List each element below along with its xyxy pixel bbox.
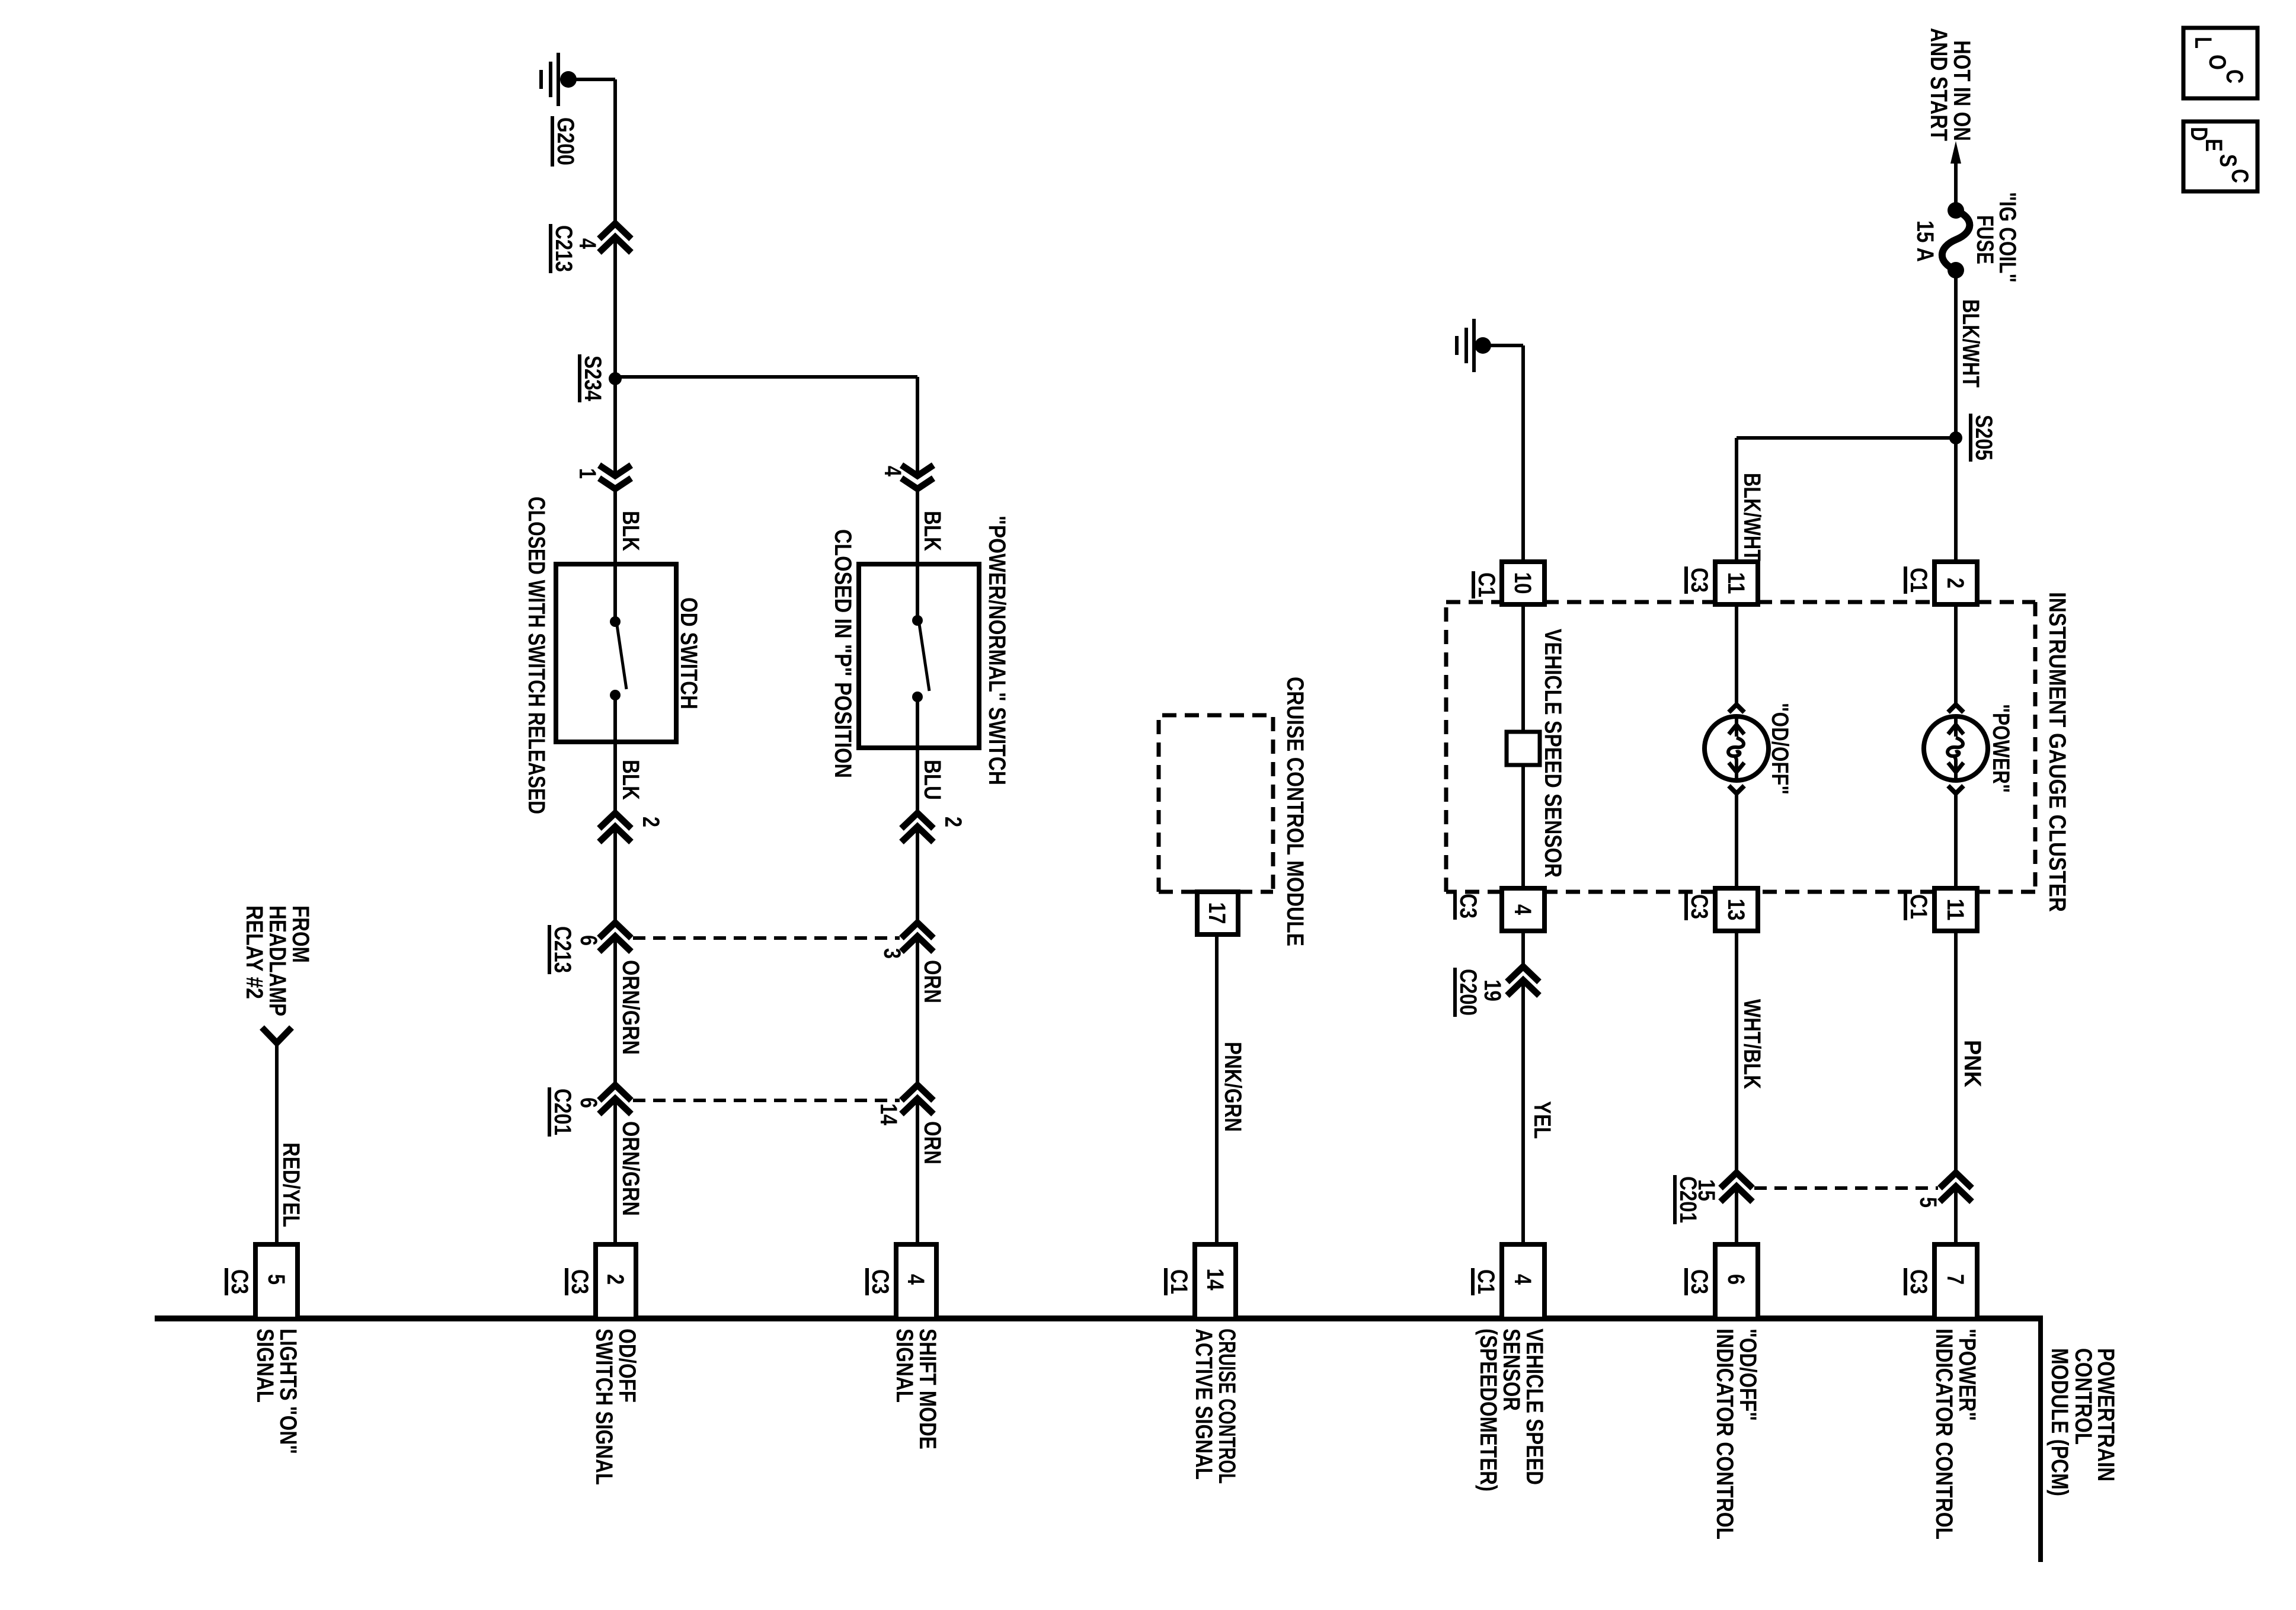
wire cluster pin2 to POWER lamp bbox=[1954, 604, 1958, 705]
wire BLU below POWER/NORMAL switch bbox=[916, 748, 919, 813]
svg-text:CONTROL: CONTROL bbox=[2070, 1348, 2096, 1445]
svg-text:C1: C1 bbox=[1473, 572, 1499, 597]
inline connector pin 1 (OD switch) bbox=[599, 465, 631, 476]
wire to PCM pin 6 bbox=[1735, 1186, 1738, 1242]
wire RED/YEL to PCM pin 5 bbox=[275, 1042, 279, 1242]
svg-text:PNK: PNK bbox=[1959, 1040, 1985, 1087]
inline connector C213 pin 4 bbox=[599, 223, 631, 239]
arrow to power feed bbox=[1950, 141, 1961, 164]
wire PNK to pin 5 bbox=[1954, 931, 1958, 1173]
connector box pin 14 C1 (PCM) bbox=[1195, 1244, 1236, 1319]
inline connector C201 pin 15 bbox=[1721, 1173, 1753, 1188]
svg-text:INDICATOR CONTROL: INDICATOR CONTROL bbox=[1931, 1329, 1957, 1539]
svg-text:CRUISE CONTROL MODULE: CRUISE CONTROL MODULE bbox=[1282, 677, 1308, 946]
svg-text:6: 6 bbox=[575, 935, 602, 946]
inline connector pin 2 (POWER/NORMAL switch) bbox=[901, 813, 933, 828]
POWER/NORMAL switch contacts and blade bbox=[912, 615, 923, 626]
connector box pin 11 C3 (cluster) bbox=[1715, 562, 1758, 604]
svg-text:LIGHTS "ON": LIGHTS "ON" bbox=[275, 1329, 301, 1454]
svg-text:BLK: BLK bbox=[618, 760, 644, 800]
svg-text:OD SWITCH: OD SWITCH bbox=[676, 597, 702, 709]
inline connector C213 pin 6 bbox=[599, 923, 631, 938]
svg-text:11: 11 bbox=[1723, 572, 1749, 594]
svg-text:BLK: BLK bbox=[618, 511, 644, 551]
indicator lamp POWER bbox=[1948, 705, 1964, 712]
svg-text:SWITCH SIGNAL: SWITCH SIGNAL bbox=[591, 1329, 617, 1485]
svg-text:11: 11 bbox=[1942, 899, 1968, 921]
svg-text:6: 6 bbox=[575, 1097, 602, 1108]
svg-text:C1: C1 bbox=[1166, 1269, 1192, 1294]
splice S205 bbox=[1949, 431, 1962, 444]
svg-text:"POWER": "POWER" bbox=[1988, 704, 2014, 793]
indicator lamp OD/OFF bbox=[1729, 705, 1744, 712]
svg-text:S234: S234 bbox=[580, 356, 606, 402]
svg-text:RED/YEL: RED/YEL bbox=[278, 1142, 304, 1227]
svg-text:C3: C3 bbox=[1686, 568, 1712, 593]
legend box DESC bbox=[2183, 121, 2257, 191]
wire to C200 bbox=[1521, 931, 1525, 966]
svg-text:YEL: YEL bbox=[1529, 1101, 1555, 1139]
svg-text:4: 4 bbox=[1510, 1274, 1536, 1285]
wire sensor to cluster pin 4 bbox=[1521, 765, 1525, 888]
svg-text:C3: C3 bbox=[567, 1269, 593, 1294]
INSTRUMENT GAUGE CLUSTER dashed box bbox=[1446, 602, 2035, 892]
svg-text:C213: C213 bbox=[551, 225, 577, 272]
svg-text:RELAY #2: RELAY #2 bbox=[241, 905, 267, 999]
svg-text:INDICATOR CONTROL: INDICATOR CONTROL bbox=[1712, 1329, 1738, 1539]
svg-text:BLK: BLK bbox=[919, 511, 945, 551]
svg-text:10: 10 bbox=[1510, 572, 1536, 594]
connector box pin 7 C3 (PCM) bbox=[1934, 1244, 1977, 1319]
svg-text:CLOSED WITH SWITCH RELEASED: CLOSED WITH SWITCH RELEASED bbox=[523, 497, 549, 814]
wire ORN to pin 3 bbox=[916, 827, 919, 923]
svg-text:ACTIVE SIGNAL: ACTIVE SIGNAL bbox=[1191, 1329, 1217, 1480]
svg-text:"OD/OFF": "OD/OFF" bbox=[1767, 703, 1793, 795]
legend box LOC bbox=[2183, 28, 2257, 98]
wire ground to C213 bbox=[568, 78, 615, 81]
svg-text:6: 6 bbox=[1723, 1274, 1749, 1285]
wire PNK/GRN to PCM pin 14 bbox=[1215, 934, 1219, 1242]
wire POWER lamp to cluster pin 11 bbox=[1954, 793, 1958, 888]
wire to C213 pin 6 bbox=[613, 827, 617, 923]
wire PNK to PCM pin 7 bbox=[1954, 1186, 1958, 1242]
svg-text:4: 4 bbox=[574, 238, 600, 249]
svg-text:G200: G200 bbox=[552, 117, 578, 165]
svg-text:14: 14 bbox=[1202, 1269, 1228, 1291]
wire ORN/GRN to C201 bbox=[613, 936, 617, 1085]
svg-text:CRUISE CONTROL: CRUISE CONTROL bbox=[1214, 1329, 1240, 1484]
svg-text:C200: C200 bbox=[1455, 969, 1481, 1016]
svg-text:C: C bbox=[2227, 169, 2253, 183]
fuse IG COIL 15 A bbox=[1948, 202, 1964, 219]
svg-text:C1: C1 bbox=[1473, 1269, 1499, 1294]
svg-text:PNK/GRN: PNK/GRN bbox=[1220, 1042, 1246, 1132]
wire BLK/WHT fuse to cluster pin 2 bbox=[1954, 270, 1958, 562]
svg-text:C1: C1 bbox=[1905, 568, 1932, 593]
connector box pin 4 C1 (PCM) bbox=[1502, 1244, 1544, 1319]
connector box pin 2 C1 (cluster) bbox=[1934, 562, 1977, 604]
svg-text:19: 19 bbox=[1479, 980, 1505, 1001]
vehicle speed sensor element bbox=[1507, 732, 1540, 765]
wire BLK into POWER/NORMAL switch bbox=[916, 489, 919, 564]
svg-text:S: S bbox=[2215, 154, 2241, 167]
connector box pin 5 C3 (PCM) bbox=[255, 1244, 298, 1319]
inline connector pin 4 (POWER/NORMAL switch) bbox=[901, 465, 933, 476]
PCM right boundary line bbox=[2038, 1315, 2043, 1562]
svg-text:SHIFT MODE: SHIFT MODE bbox=[914, 1329, 941, 1449]
wire S234 branch to POWER/NORMAL switch bbox=[615, 375, 917, 379]
svg-text:2: 2 bbox=[940, 817, 966, 827]
inline connector pin 5 bbox=[1940, 1173, 1972, 1188]
svg-text:17: 17 bbox=[1204, 902, 1230, 924]
svg-text:C3: C3 bbox=[867, 1269, 893, 1294]
svg-text:C3: C3 bbox=[1686, 1269, 1712, 1294]
dashed link C213 pin6 to pin3 bbox=[633, 936, 900, 940]
svg-text:C201: C201 bbox=[549, 1089, 575, 1135]
svg-text:L: L bbox=[2190, 37, 2216, 49]
svg-text:2: 2 bbox=[602, 1274, 628, 1285]
svg-text:VEHICLE SPEED SENSOR: VEHICLE SPEED SENSOR bbox=[1540, 629, 1566, 878]
svg-text:C3: C3 bbox=[1686, 894, 1712, 919]
svg-text:5: 5 bbox=[1915, 1197, 1941, 1208]
svg-text:CLOSED IN "P" POSITION: CLOSED IN "P" POSITION bbox=[830, 529, 856, 778]
svg-text:BLU: BLU bbox=[919, 760, 945, 800]
svg-text:13: 13 bbox=[1723, 899, 1749, 921]
wire ORN to pin 14 bbox=[916, 936, 919, 1085]
connector box pin 6 C3 (PCM) bbox=[1715, 1244, 1758, 1319]
svg-text:"POWER": "POWER" bbox=[1954, 1329, 1980, 1421]
svg-text:7: 7 bbox=[1942, 1274, 1968, 1285]
wire S205 branch BLK/WHT bbox=[1737, 436, 1956, 440]
wire BLK from S234 to POWER/NORMAL switch bbox=[916, 377, 919, 476]
svg-text:4: 4 bbox=[880, 466, 906, 477]
svg-text:3: 3 bbox=[879, 948, 905, 959]
svg-text:C213: C213 bbox=[549, 926, 575, 973]
connector box pin 2 C3 (PCM) bbox=[596, 1244, 636, 1319]
connector box pin 13 C3 (cluster) bbox=[1715, 888, 1758, 931]
svg-text:5: 5 bbox=[263, 1274, 289, 1285]
inline connector pin 14 bbox=[901, 1085, 933, 1100]
svg-text:14: 14 bbox=[875, 1103, 901, 1126]
svg-text:1: 1 bbox=[574, 468, 600, 479]
svg-text:SIGNAL: SIGNAL bbox=[252, 1329, 278, 1403]
CRUISE CONTROL MODULE dashed box bbox=[1159, 715, 1273, 892]
OD SWITCH box bbox=[556, 564, 676, 742]
svg-text:C3: C3 bbox=[1905, 1269, 1932, 1294]
svg-text:AND START: AND START bbox=[1926, 28, 1952, 141]
svg-text:VEHICLE SPEED: VEHICLE SPEED bbox=[1521, 1329, 1547, 1485]
dashed link C201 pin15 to pin5 bbox=[1754, 1186, 1938, 1190]
svg-text:FROM: FROM bbox=[287, 905, 314, 963]
svg-text:ORN: ORN bbox=[919, 960, 945, 1003]
svg-text:C: C bbox=[2221, 69, 2247, 84]
svg-text:ORN: ORN bbox=[919, 1121, 945, 1164]
svg-text:WHT/BLK: WHT/BLK bbox=[1739, 999, 1765, 1089]
POWER/NORMAL SWITCH box bbox=[859, 564, 979, 748]
wire ground to cluster pin 10 bbox=[1483, 344, 1523, 347]
wire YEL to PCM pin 4 bbox=[1521, 980, 1525, 1242]
svg-text:MODULE (PCM): MODULE (PCM) bbox=[2046, 1348, 2073, 1496]
OD switch contacts and blade bbox=[610, 616, 621, 627]
svg-text:ORN/GRN: ORN/GRN bbox=[618, 960, 644, 1055]
dashed link C201 pin6 to pin14 bbox=[633, 1099, 900, 1102]
svg-text:HEADLAMP: HEADLAMP bbox=[264, 905, 290, 1016]
inline connector C201 pin 6 bbox=[599, 1085, 631, 1100]
connector box pin 10 C1 (cluster) bbox=[1502, 562, 1544, 604]
connector box pin 4 C3 (cluster) bbox=[1502, 888, 1544, 931]
svg-text:C3: C3 bbox=[226, 1269, 252, 1294]
svg-text:2: 2 bbox=[638, 817, 664, 827]
inline connector C200 pin 19 bbox=[1507, 966, 1539, 982]
svg-text:"OD/OFF": "OD/OFF" bbox=[1735, 1329, 1761, 1421]
svg-text:C1: C1 bbox=[1905, 894, 1932, 919]
connector box pin 4 C3 (PCM) bbox=[896, 1244, 936, 1319]
connector box pin 11 C1 (cluster) bbox=[1934, 888, 1977, 931]
PCM bus line (Powertrain Control Module boundary) bbox=[155, 1315, 2043, 1321]
wire cluster pin11 to OD/OFF lamp bbox=[1735, 604, 1738, 705]
wire WHT/BLK to C201 pin 15 bbox=[1735, 931, 1738, 1173]
wire BLK below OD switch bbox=[613, 742, 617, 813]
svg-text:4: 4 bbox=[903, 1274, 929, 1285]
svg-text:S205: S205 bbox=[1971, 415, 1997, 460]
inline connector pin 3 bbox=[901, 923, 933, 938]
wire ORN to PCM pin 4 bbox=[916, 1099, 919, 1242]
svg-text:SENSOR: SENSOR bbox=[1498, 1329, 1524, 1411]
svg-text:C3: C3 bbox=[1455, 894, 1481, 918]
svg-text:(SPEEDOMETER): (SPEEDOMETER) bbox=[1475, 1329, 1501, 1491]
svg-text:O: O bbox=[2204, 55, 2230, 70]
svg-text:BLK/WHT: BLK/WHT bbox=[1958, 299, 1984, 388]
svg-text:FUSE: FUSE bbox=[1972, 215, 1998, 264]
ground (vehicle speed sensor) bbox=[1472, 319, 1476, 372]
svg-text:15: 15 bbox=[1693, 1179, 1719, 1201]
wire to speed sensor bbox=[1521, 604, 1525, 732]
connector box pin 17 (cruise control module) bbox=[1197, 892, 1238, 934]
svg-text:HOT IN ON: HOT IN ON bbox=[1949, 40, 1975, 141]
wire BLK into OD switch bbox=[613, 489, 617, 564]
wire OD/OFF lamp to cluster pin 13 bbox=[1735, 793, 1738, 888]
inline connector pin 2 (OD switch) bbox=[599, 813, 631, 828]
svg-text:"POWER/NORMAL" SWITCH: "POWER/NORMAL" SWITCH bbox=[984, 516, 1010, 785]
svg-text:OD/OFF: OD/OFF bbox=[614, 1329, 640, 1403]
svg-text:E: E bbox=[2201, 139, 2227, 152]
off-page arrow FROM HEADLAMP RELAY #2 bbox=[262, 1028, 292, 1043]
svg-text:2: 2 bbox=[1942, 578, 1968, 588]
wire BLK from C213 to S234/switch bbox=[613, 237, 617, 476]
svg-text:4: 4 bbox=[1510, 904, 1536, 916]
splice S234 bbox=[609, 372, 622, 385]
svg-text:ORN/GRN: ORN/GRN bbox=[618, 1121, 644, 1216]
ground G200 bbox=[557, 53, 560, 106]
svg-text:15 A: 15 A bbox=[1912, 220, 1938, 262]
svg-text:SIGNAL: SIGNAL bbox=[891, 1329, 917, 1403]
svg-text:INSTRUMENT GAUGE CLUSTER: INSTRUMENT GAUGE CLUSTER bbox=[2044, 592, 2070, 912]
svg-text:BLK/WHT: BLK/WHT bbox=[1739, 473, 1765, 561]
wire ORN/GRN to PCM pin 2 bbox=[613, 1099, 617, 1242]
